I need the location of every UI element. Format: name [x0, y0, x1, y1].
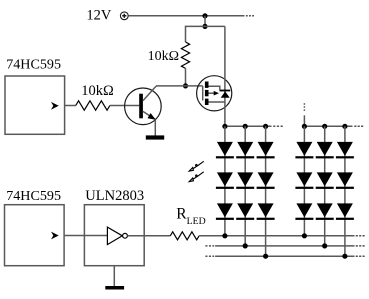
- node junction on rail: [202, 13, 207, 18]
- bus row line 2: [215, 245, 354, 247]
- wire LED column 4: [303, 126, 305, 236]
- wire U3 ground lead: [113, 266, 115, 286]
- transistor Q2 body arrowhead: [214, 91, 219, 96]
- diode body triangle: [221, 91, 230, 97]
- bus row line 3 right dots: [356, 255, 366, 257]
- resistor R2 10k pull-up zigzag: [181, 42, 189, 68]
- bus top group2 continuation dots: [354, 125, 364, 127]
- wire emitter to ground: [154, 119, 156, 135]
- supply terminal +: [120, 12, 128, 20]
- wire bubble to box edge: [127, 235, 170, 237]
- LED matrix diodes: [216, 142, 354, 220]
- bus top group1: [225, 125, 272, 127]
- transistor Q1 collector: [143, 86, 156, 101]
- LED D5: [317, 142, 333, 156]
- wire LED column 1: [224, 126, 226, 236]
- transistor Q2 MOSFET circle: [197, 76, 232, 111]
- wire resistor to transistor base: [110, 105, 139, 107]
- LED D14: [237, 203, 253, 217]
- wire LED column 6: [344, 126, 346, 256]
- LED D13: [217, 203, 233, 217]
- LED D3: [258, 142, 274, 156]
- wire rail continuation dots: [246, 15, 254, 17]
- wire LED column 5: [324, 126, 326, 246]
- wire collector to MOSFET gate: [156, 85, 203, 87]
- wire drain connect: [209, 86, 220, 89]
- wire branch (resistor top to MOSFET drain): [186, 26, 225, 42]
- transistor Q2 channel bar body: [205, 90, 209, 96]
- IC U1 output arrow: [51, 102, 59, 110]
- photon arrow 2: [189, 172, 204, 182]
- LED D6: [337, 142, 353, 156]
- wire LED column 2: [244, 126, 246, 246]
- LED D12: [337, 172, 353, 186]
- LED D18: [337, 203, 353, 217]
- IC U2 74HC595 box: [5, 205, 65, 266]
- LED D9: [258, 172, 274, 186]
- IC U1 74HC595 box: [5, 76, 65, 134]
- diode body cathode bar: [220, 90, 231, 92]
- wire source connect: [209, 101, 225, 103]
- LED D8: [237, 172, 253, 186]
- transistor Q1 base bar: [139, 94, 143, 119]
- bus top group1 continuation dots: [273, 125, 283, 127]
- bus row line 1 right dots: [356, 235, 366, 237]
- node top bus junctions: [222, 124, 347, 129]
- svg-text:ULN2803: ULN2803: [85, 188, 144, 204]
- wire body connect: [209, 92, 215, 94]
- LED D10: [296, 172, 312, 186]
- transistor Q1 NPN circle: [125, 88, 162, 125]
- wire stub rail to branch: [204, 16, 206, 27]
- wire U2 to U3: [64, 235, 107, 237]
- IC U3 ULN2803 box: [84, 205, 144, 266]
- wire vertical continuation above col4: [303, 103, 305, 111]
- LED D1: [217, 142, 233, 156]
- bus row line 2 left dots: [205, 245, 214, 247]
- bus top group2: [304, 125, 352, 127]
- resistor R1 10k base zigzag: [76, 101, 110, 110]
- bus row line 3 left dots: [205, 255, 214, 257]
- transistor Q2 gate bar: [202, 86, 204, 101]
- wire 12V rail: [129, 15, 245, 17]
- ground U3: [105, 286, 124, 290]
- bus row line 2 right dots: [356, 245, 366, 247]
- svg-text:10kΩ: 10kΩ: [81, 83, 114, 99]
- ground Q1 emitter: [146, 135, 164, 139]
- LED D7: [217, 172, 233, 186]
- IC U2 output arrow: [51, 232, 59, 240]
- LED D15: [258, 203, 274, 217]
- photon arrow 1: [189, 161, 204, 171]
- wire U1 output to resistor: [65, 105, 76, 107]
- node junction on branch wire: [202, 24, 207, 29]
- transistor Q1 emitter arrowhead: [148, 113, 156, 120]
- wire resistor bottom lead: [185, 68, 187, 86]
- buffer triangle U3: [107, 227, 122, 245]
- LED D16: [296, 203, 312, 217]
- node junction resistor/collector/gate: [183, 83, 188, 88]
- svg-text:12V: 12V: [86, 7, 112, 23]
- LED D17: [317, 203, 333, 217]
- resistor R_LED zigzag: [170, 232, 199, 240]
- wire LED column 3: [265, 126, 267, 256]
- LED D4: [296, 142, 312, 156]
- svg-text:10kΩ: 10kΩ: [148, 49, 179, 64]
- bus row line 3: [215, 255, 354, 257]
- transistor Q2 channel bar source: [205, 99, 209, 105]
- svg-text:74HC595: 74HC595: [6, 57, 61, 73]
- LED D2: [237, 142, 253, 156]
- svg-text:74HC595: 74HC595: [6, 188, 61, 204]
- bus row line 1: [199, 235, 354, 237]
- LED D11: [317, 172, 333, 186]
- transistor Q1 emitter: [143, 111, 155, 119]
- node bottom bus junctions: [222, 233, 347, 259]
- transistor Q2 channel bar drain: [205, 82, 209, 88]
- wire drain-source vertical: [224, 26, 226, 126]
- buffer bubble U3: [123, 233, 128, 238]
